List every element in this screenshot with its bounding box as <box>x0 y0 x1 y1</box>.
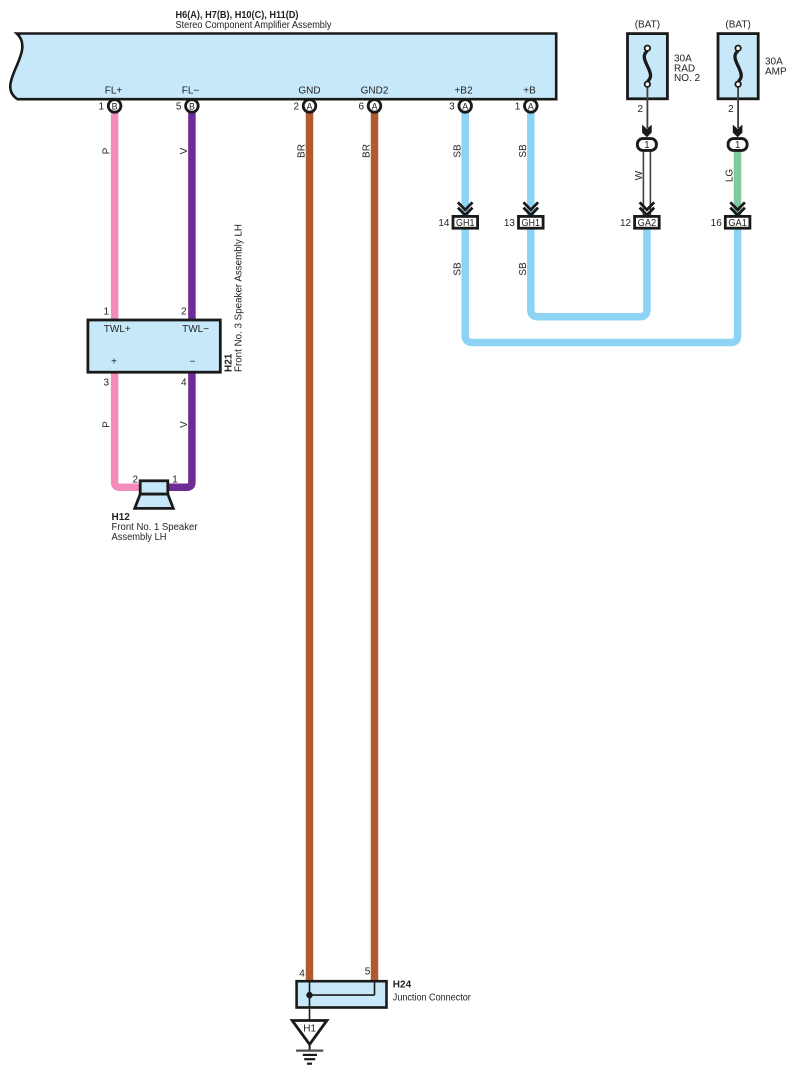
svg-text:2: 2 <box>132 475 138 486</box>
H24 junction dot <box>306 992 312 998</box>
wire LG (light green) from fuse AMP node to GA1 <box>734 150 742 216</box>
svg-text:1: 1 <box>515 101 521 112</box>
node 1 ellipse (right) <box>728 139 747 152</box>
svg-text:5: 5 <box>365 967 371 978</box>
svg-text:GND2: GND2 <box>361 86 389 97</box>
svg-text:A: A <box>528 101 534 111</box>
svg-text:FL+: FL+ <box>105 86 123 97</box>
arrow into node 1 (right) <box>733 125 743 138</box>
wire BR (brown) from GND2 to H24 pin 5 <box>371 108 379 982</box>
svg-text:(BAT): (BAT) <box>635 20 660 31</box>
pin 3 A circle (+B2) <box>449 100 471 113</box>
svg-text:A: A <box>307 101 313 111</box>
pin 1 B circle (FL+) <box>99 100 121 113</box>
svg-text:(BAT): (BAT) <box>725 20 750 31</box>
svg-text:GND: GND <box>298 86 320 97</box>
speaker H12 symbol <box>135 481 174 509</box>
svg-text:Front No. 3 Speaker Assembly: Front No. 3 Speaker Assembly LH <box>234 224 245 372</box>
svg-text:SB: SB <box>452 144 463 158</box>
fuse F2 30A AMP box <box>718 20 787 99</box>
svg-text:4: 4 <box>181 378 187 389</box>
connector GA2 (12) <box>620 216 659 229</box>
H12 labels <box>112 512 199 543</box>
svg-text:1: 1 <box>103 307 109 318</box>
node 1 ellipse (left) <box>637 139 656 152</box>
svg-text:A: A <box>372 101 378 111</box>
svg-text:1: 1 <box>644 140 650 151</box>
svg-text:Stereo Component Amplifier Ass: Stereo Component Amplifier Assembly <box>176 20 332 31</box>
svg-text:P: P <box>102 147 113 154</box>
junction connector H24 box <box>297 981 387 1007</box>
svg-text:2: 2 <box>181 307 187 318</box>
svg-text:TWL+: TWL+ <box>104 324 131 335</box>
pin 2 A circle (GND) <box>293 100 315 113</box>
pin 6 A circle (GND2) <box>358 100 380 113</box>
svg-text:GH1: GH1 <box>456 217 475 229</box>
svg-text:GA1: GA1 <box>728 217 747 229</box>
svg-text:6: 6 <box>358 101 364 112</box>
svg-text:SB: SB <box>518 262 529 276</box>
svg-text:Assembly LH: Assembly LH <box>112 532 167 543</box>
svg-text:V: V <box>179 147 190 154</box>
svg-text:A: A <box>462 101 468 111</box>
svg-text:TWL−: TWL− <box>182 324 209 335</box>
wire P (pink) from H21 pin 3 to speaker H12 pin 2 <box>115 371 141 487</box>
svg-text:1: 1 <box>99 101 105 112</box>
ground triangle H1 <box>292 1021 327 1045</box>
chevron arrow into GA2 <box>640 202 655 215</box>
wire V (violet) from FL- to H21 pin 2 <box>188 108 196 321</box>
ground symbol <box>296 1044 323 1063</box>
svg-text:P: P <box>102 421 113 428</box>
wire W (white) from fuse RAD node to GA2 <box>643 150 650 216</box>
amplifier assembly H6/H7/H10/H11 box <box>10 34 556 100</box>
wire SB from +B2 to connector GH1 (14) <box>461 108 469 216</box>
svg-text:−: − <box>190 357 196 368</box>
svg-text:NO. 2: NO. 2 <box>674 73 701 84</box>
svg-text:GA2: GA2 <box>638 217 657 229</box>
fuse F1 pin 2 lead <box>637 99 647 128</box>
svg-text:4: 4 <box>299 969 305 980</box>
svg-text:SB: SB <box>518 144 529 158</box>
H24 internal wire <box>310 982 375 1020</box>
pin 5 B circle (FL-) <box>176 100 198 113</box>
chevron arrow into GA1 <box>730 202 745 215</box>
svg-text:V: V <box>179 421 190 428</box>
svg-text:+B2: +B2 <box>454 86 473 97</box>
svg-text:B: B <box>112 101 118 111</box>
svg-text:H1: H1 <box>303 1024 316 1035</box>
wire SB U-link from GH1 (14) to GA1 <box>465 228 737 343</box>
svg-text:LG: LG <box>724 169 735 183</box>
connector GH1 (13) <box>504 216 543 229</box>
svg-text:AMP: AMP <box>765 66 787 77</box>
wire P (pink) from FL+ to H21 pin 1 <box>111 108 119 321</box>
svg-text:16: 16 <box>711 218 723 229</box>
connector GA1 (16) <box>711 216 750 229</box>
svg-text:SB: SB <box>452 262 463 276</box>
svg-text:GH1: GH1 <box>522 217 541 229</box>
svg-text:BR: BR <box>362 144 373 158</box>
chevron arrow into GH1 (14) <box>458 202 473 215</box>
svg-text:2: 2 <box>728 104 734 115</box>
svg-text:+: + <box>111 357 117 368</box>
svg-text:Junction Connector: Junction Connector <box>393 993 472 1004</box>
svg-text:+B: +B <box>523 86 536 97</box>
svg-text:BR: BR <box>297 144 308 158</box>
svg-text:H24: H24 <box>393 980 412 991</box>
pin 1 A circle (+B) <box>515 100 537 113</box>
svg-text:W: W <box>634 170 645 180</box>
svg-text:12: 12 <box>620 218 632 229</box>
svg-text:2: 2 <box>293 101 299 112</box>
svg-text:2: 2 <box>637 104 643 115</box>
arrow into node 1 (left) <box>642 125 652 138</box>
wire SB from +B to connector GH1 (13) <box>527 108 535 216</box>
speaker assembly H21 box <box>88 320 220 372</box>
H24 labels <box>393 980 472 1004</box>
wire V (violet) from H21 pin 4 to speaker H12 pin 1 <box>167 371 192 487</box>
fuse F2 pin 2 lead <box>728 99 738 128</box>
chevron arrow into GH1 (13) <box>524 202 539 215</box>
svg-text:FL−: FL− <box>182 86 200 97</box>
connector GH1 (14) <box>438 216 477 229</box>
svg-text:5: 5 <box>176 101 182 112</box>
svg-text:3: 3 <box>449 101 455 112</box>
svg-text:14: 14 <box>438 218 450 229</box>
svg-text:13: 13 <box>504 218 516 229</box>
wire SB U-link from GH1 (13) to GA2 <box>531 228 647 317</box>
svg-text:3: 3 <box>103 378 109 389</box>
wire BR (brown) from GND to H24 pin 4 <box>306 108 314 982</box>
fuse F1 30A RAD NO.2 box <box>628 20 701 99</box>
svg-text:B: B <box>189 101 195 111</box>
svg-text:1: 1 <box>172 475 178 486</box>
svg-text:1: 1 <box>735 140 741 151</box>
